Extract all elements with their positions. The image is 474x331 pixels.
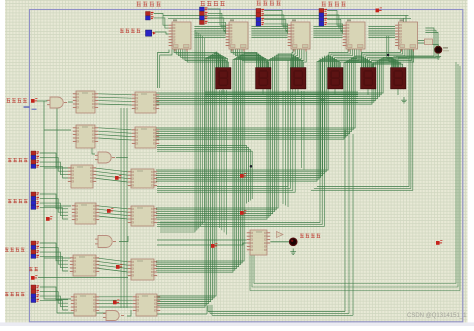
svg-text:CSDN @Q1314151_1: CSDN @Q1314151_1: [407, 313, 467, 319]
